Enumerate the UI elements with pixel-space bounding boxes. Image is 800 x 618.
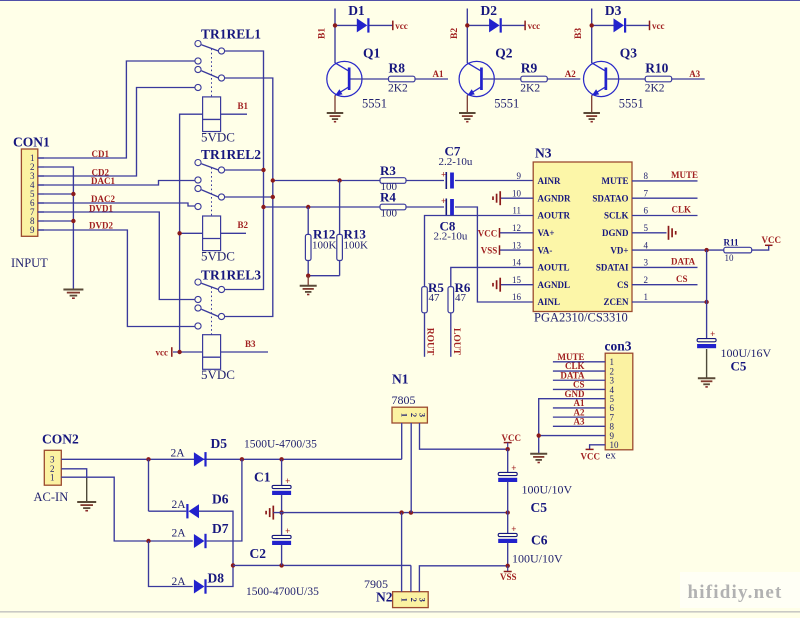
wire con3 MUTE <box>553 361 605 363</box>
junction bus A relay2 <box>261 168 265 172</box>
wire DVD2 <box>38 230 195 327</box>
svg-text:100U/10V: 100U/10V <box>512 551 563 565</box>
svg-text:INPUT: INPUT <box>11 256 48 270</box>
svg-text:VSS: VSS <box>500 572 517 582</box>
junction con3 ground <box>537 433 541 437</box>
relay TR1REL1 coil <box>203 97 221 132</box>
wire D6 leg <box>148 459 150 511</box>
svg-text:2A: 2A <box>172 576 187 588</box>
svg-text:C5: C5 <box>531 500 548 515</box>
transistor Q2 <box>459 61 494 96</box>
svg-text:DVD2: DVD2 <box>89 221 113 231</box>
svg-text:D8: D8 <box>208 571 225 586</box>
power port VSS supply <box>507 566 509 572</box>
wire CD1 <box>38 61 195 158</box>
power port vcc relays <box>171 347 173 357</box>
wire TR1REL2 coil to B2 <box>221 232 246 234</box>
svg-text:8: 8 <box>644 171 649 181</box>
wire pin 7 SDATAO <box>632 197 698 199</box>
transistor Q3 <box>584 61 619 96</box>
power port VCC right <box>765 244 773 246</box>
relay TR1REL2 linkage dotted line <box>211 168 213 216</box>
svg-text:D5: D5 <box>211 436 228 451</box>
relay TR1REL3 pole2 arm <box>201 309 218 316</box>
svg-text:47: 47 <box>455 292 467 304</box>
wire C5 to ground <box>706 349 708 378</box>
wire TR1REL1 coil to B1 <box>221 113 247 115</box>
capacitor C5 100U/10V <box>507 449 509 473</box>
resistor R6 <box>448 287 454 313</box>
relay TR1REL3 contact 3 <box>195 296 201 302</box>
svg-text:VCC: VCC <box>502 433 522 443</box>
svg-text:D2: D2 <box>481 3 498 18</box>
wire DAC1 <box>38 181 195 186</box>
svg-text:DGND: DGND <box>602 228 629 238</box>
wire CON2 pin2 to ground <box>61 469 86 478</box>
capacitor C8 <box>445 199 447 216</box>
svg-text:2K2: 2K2 <box>520 83 540 95</box>
svg-text:PGA2310/CS3310: PGA2310/CS3310 <box>534 311 628 325</box>
diode D3 <box>592 24 615 26</box>
svg-text:1: 1 <box>400 413 410 417</box>
svg-text:AOUTL: AOUTL <box>538 263 570 273</box>
power port vcc D1 <box>392 21 394 31</box>
svg-text:vcc: vcc <box>156 348 169 358</box>
svg-text:MUTE: MUTE <box>671 170 698 180</box>
svg-text:R8: R8 <box>389 60 406 75</box>
ground Q2 <box>459 112 476 114</box>
wire C8 to pin 16 AINL <box>455 207 533 302</box>
wire N1 pin3 output vcc <box>420 423 508 449</box>
capacitor C2 <box>281 513 283 536</box>
wire pin 14 AOUTL to R6 <box>451 267 533 286</box>
relay TR1REL1 contact 4 <box>195 66 201 72</box>
svg-text:+: + <box>441 196 446 206</box>
svg-text:hifidiy.net: hifidiy.net <box>688 582 783 603</box>
svg-text:2A: 2A <box>171 447 186 459</box>
wire bus A pole1 commons <box>225 51 264 290</box>
resistor R11 <box>724 247 752 253</box>
svg-text:4: 4 <box>644 240 649 250</box>
svg-text:GND: GND <box>565 389 586 399</box>
bottom border line <box>0 611 800 613</box>
wire R4 to C8 <box>406 206 444 208</box>
diode D6 <box>189 504 200 518</box>
wire con3 A3 <box>553 425 605 427</box>
wire collector Q3 <box>591 9 593 64</box>
relay TR1REL3 contact 2 <box>218 286 224 292</box>
relay TR1REL2 contact 6 <box>195 203 201 209</box>
wire N2 pin1 ground <box>401 513 403 592</box>
wire con3 pin 9 to ground <box>539 435 606 437</box>
svg-text:TR1REL3: TR1REL3 <box>201 268 261 283</box>
wire CON2 pin3 to D5 rail <box>61 458 401 460</box>
ground R12 R13 <box>300 285 317 287</box>
svg-text:C6: C6 <box>531 533 548 548</box>
svg-text:CON2: CON2 <box>42 431 79 446</box>
wire base Q1 to R8 <box>351 78 389 80</box>
wire C7 to pin 9 <box>455 180 533 182</box>
svg-text:VCC: VCC <box>762 235 782 245</box>
svg-text:CON1: CON1 <box>13 135 50 150</box>
capacitor C7 <box>445 172 447 189</box>
junction D1 anode <box>333 23 337 27</box>
wire pin 1 ZCEN <box>632 301 707 303</box>
svg-text:+: + <box>710 329 715 339</box>
junction D5 D6 leg <box>146 457 150 461</box>
junction R13 top <box>337 178 341 182</box>
svg-text:5VDC: 5VDC <box>201 249 235 264</box>
relay TR1REL3 contact 5 <box>218 313 224 319</box>
power port VCC pin 12 <box>499 228 501 238</box>
svg-text:D7: D7 <box>212 521 229 536</box>
transistor Q1 <box>327 61 362 96</box>
svg-text:DATA: DATA <box>671 257 696 267</box>
relay TR1REL1 pole1 arm <box>201 45 218 51</box>
svg-text:47: 47 <box>429 292 441 304</box>
svg-text:2: 2 <box>644 275 649 285</box>
resistor R10 <box>645 76 672 82</box>
wire collector Q2 <box>466 9 468 64</box>
junction bus B relay2 <box>271 195 275 199</box>
wire emitter Q1 <box>334 95 336 112</box>
svg-text:100: 100 <box>381 208 398 220</box>
svg-text:100K: 100K <box>312 240 337 252</box>
svg-text:1: 1 <box>644 292 649 302</box>
svg-text:100K: 100K <box>344 240 369 252</box>
svg-text:1500-4700U/35: 1500-4700U/35 <box>246 586 319 598</box>
svg-text:VCC: VCC <box>478 228 498 238</box>
svg-text:LOUT: LOUT <box>451 328 461 356</box>
svg-text:3: 3 <box>418 413 428 417</box>
wire pin 3 SDATAI <box>632 266 698 268</box>
svg-text:7905: 7905 <box>364 577 388 591</box>
ground CON2 <box>77 501 96 503</box>
wire R3 to C7 <box>406 180 444 182</box>
wire con3 DATA <box>553 379 605 381</box>
svg-text:16: 16 <box>512 292 522 302</box>
svg-text:+: + <box>285 526 290 536</box>
svg-text:SDATAI: SDATAI <box>596 263 629 273</box>
relay TR1REL2 contact 2 <box>218 167 224 173</box>
svg-text:2: 2 <box>409 598 419 602</box>
wire N2 pin2 input <box>410 565 412 591</box>
wire R6 to LOUT <box>450 313 452 357</box>
relay TR1REL1 contact 1 <box>195 41 201 47</box>
svg-text:12: 12 <box>512 223 521 233</box>
relay TR1REL1 linkage dotted line <box>211 49 213 97</box>
svg-text:DAC1: DAC1 <box>91 176 115 186</box>
junction D7 output on rail <box>240 457 244 461</box>
wire emitter Q3 <box>591 95 593 112</box>
wire con3 GND pin 5 <box>539 399 606 454</box>
op-amp / IC N3 PGA2310 <box>533 162 632 312</box>
wire vcc bus for relay coils <box>173 114 203 352</box>
svg-text:D6: D6 <box>212 492 229 507</box>
svg-text:vcc: vcc <box>652 21 665 31</box>
relay TR1REL1 contact 3 <box>195 58 201 64</box>
svg-text:9: 9 <box>517 171 522 181</box>
wire DVD1 <box>38 212 195 300</box>
relay TR1REL1 contact 2 <box>218 48 224 54</box>
junction D2 anode <box>465 23 469 27</box>
svg-text:CS: CS <box>676 274 688 284</box>
svg-text:2.2-10u: 2.2-10u <box>439 156 473 168</box>
svg-text:VA+: VA+ <box>538 228 555 238</box>
wire VD+ ZCEN bus down to C5 <box>706 250 708 339</box>
wire emitter Q2 <box>466 95 468 112</box>
wire L channel line to R4 <box>264 206 381 208</box>
wire con3 CS <box>553 388 605 390</box>
svg-text:5: 5 <box>644 223 649 233</box>
junction D6 D8 bottom rail <box>231 563 235 567</box>
svg-text:C5: C5 <box>731 359 747 374</box>
wire pin 5 DGND <box>632 232 667 234</box>
svg-text:3: 3 <box>50 455 55 465</box>
svg-text:VA-: VA- <box>538 245 553 255</box>
ground CON1 input common <box>63 289 83 291</box>
diode D2 <box>467 24 490 26</box>
wire con3 pin 10 VCC <box>590 445 606 450</box>
wire pin 6 SCLK <box>632 215 698 217</box>
junction C6 VSS <box>506 564 510 568</box>
resistor R8 <box>389 76 416 82</box>
analog ground pin 15 AGNDL <box>499 278 501 292</box>
svg-text:CD1: CD1 <box>92 149 110 159</box>
relay TR1REL3 contact 4 <box>195 305 201 311</box>
relay TR1REL2 contact 4 <box>195 185 201 191</box>
wire D7 to top rail <box>207 459 242 541</box>
wire CON2 pin1 to D7 row <box>61 477 192 541</box>
relay TR1REL3 coil <box>203 335 221 370</box>
svg-text:N1: N1 <box>392 372 409 387</box>
capacitor C1 <box>281 459 283 486</box>
relay TR1REL1 pole2 arm <box>201 71 218 78</box>
svg-text:B2: B2 <box>238 220 249 230</box>
wire R10 to A3 <box>672 78 705 80</box>
junction ZCEN bus <box>704 300 708 304</box>
junction C5 C6 ground <box>506 510 510 514</box>
svg-text:R3: R3 <box>380 163 396 178</box>
wire con3 A1 <box>553 407 605 409</box>
wire con3 CLK <box>553 370 605 372</box>
connector CON1 <box>21 149 37 236</box>
svg-text:R9: R9 <box>521 60 538 75</box>
svg-text:B3: B3 <box>245 339 256 349</box>
relay TR1REL3 contact 1 <box>195 279 201 285</box>
svg-text:D3: D3 <box>605 3 622 18</box>
connector CON2 <box>44 450 61 485</box>
power port vcc D3 <box>649 21 651 31</box>
svg-text:15: 15 <box>512 275 522 285</box>
svg-text:N3: N3 <box>535 146 552 161</box>
wire ground bus <box>273 512 507 514</box>
wire CON1 ground bus pins 2,5,8 <box>44 167 73 289</box>
wire collector Q1 <box>334 9 336 64</box>
svg-text:2A: 2A <box>172 499 187 511</box>
wire DAC2 <box>38 203 195 206</box>
ground con3 <box>530 453 547 455</box>
svg-text:5VDC: 5VDC <box>201 129 235 144</box>
svg-text:vcc: vcc <box>395 21 408 31</box>
svg-text:AINL: AINL <box>538 297 561 307</box>
wire N2 pin3 output vss <box>419 566 507 592</box>
svg-text:+: + <box>285 476 290 486</box>
wire D8 leg <box>149 541 193 587</box>
svg-text:DVD1: DVD1 <box>89 204 113 214</box>
wire R channel line to R3 <box>273 180 380 182</box>
junction D3 anode <box>590 23 594 27</box>
svg-text:A1: A1 <box>433 69 444 79</box>
resistor R9 <box>521 76 548 82</box>
svg-text:+: + <box>511 463 516 473</box>
diode D5 <box>194 452 205 466</box>
svg-text:Q1: Q1 <box>363 45 381 60</box>
svg-text:B3: B3 <box>574 28 584 39</box>
diode D7 <box>194 534 205 548</box>
svg-text:ex: ex <box>606 450 617 462</box>
svg-text:5VDC: 5VDC <box>201 367 235 382</box>
wire base Q2 to R9 <box>483 78 521 80</box>
junction R12 top <box>306 205 310 209</box>
wire pin 2 CS <box>632 284 698 286</box>
wire R8 to A1 <box>415 78 448 80</box>
power port VCC con3 <box>586 448 594 450</box>
wire R5 to ROUT <box>424 313 426 357</box>
wire bus B pole2 commons <box>225 78 273 317</box>
watermark background <box>680 572 800 608</box>
svg-text:AINR: AINR <box>538 176 562 186</box>
junction VCC rail <box>506 447 510 451</box>
junction bus A L line <box>261 205 265 209</box>
junction C1 ground bus <box>279 510 283 514</box>
svg-text:5551: 5551 <box>619 97 644 111</box>
wire CD2 <box>38 88 195 177</box>
svg-text:CS: CS <box>617 280 629 290</box>
capacitor C5 100U/16V <box>697 339 716 342</box>
wire con3 A2 <box>553 416 605 418</box>
wire R11 to VCC <box>752 245 769 250</box>
svg-text:TR1REL2: TR1REL2 <box>201 147 261 162</box>
svg-text:VSS: VSS <box>481 245 498 255</box>
relay TR1REL2 contact 5 <box>218 194 224 200</box>
junction VD+ bus <box>704 248 708 252</box>
junction N2 pin1 ground <box>399 510 403 514</box>
svg-text:5551: 5551 <box>494 97 519 111</box>
svg-text:B1: B1 <box>238 101 249 111</box>
svg-text:+: + <box>441 170 446 180</box>
wire base Q3 to R10 <box>607 78 645 80</box>
svg-text:14: 14 <box>512 258 522 268</box>
svg-text:2K2: 2K2 <box>388 83 408 95</box>
svg-text:ROUT: ROUT <box>425 328 435 356</box>
svg-text:3: 3 <box>417 598 427 602</box>
svg-text:A2: A2 <box>565 69 576 79</box>
svg-text:CLK: CLK <box>672 205 692 215</box>
capacitor C6 <box>507 513 509 534</box>
svg-text:1: 1 <box>50 473 55 483</box>
svg-text:Q2: Q2 <box>495 45 513 60</box>
svg-text:C2: C2 <box>250 546 267 561</box>
relay TR1REL1 contact 6 <box>195 84 201 90</box>
junction CON1 pin5 ground <box>71 192 75 196</box>
svg-text:AGNDL: AGNDL <box>538 280 571 290</box>
junction R12 bottom <box>306 274 310 278</box>
svg-text:A3: A3 <box>574 417 585 427</box>
resistor R3 <box>380 178 406 184</box>
svg-text:B1: B1 <box>318 28 328 39</box>
relay TR1REL2 contact 3 <box>195 177 201 183</box>
diode D8 <box>194 580 205 594</box>
wire pin 8 MUTE <box>632 180 698 182</box>
relay TR1REL2 pole2 arm <box>201 190 218 197</box>
junction C1 top <box>279 457 283 461</box>
svg-text:AGNDR: AGNDR <box>538 193 571 203</box>
relay TR1REL3 linkage dotted line <box>211 287 213 335</box>
svg-text:A3: A3 <box>689 69 700 79</box>
svg-text:5551: 5551 <box>362 97 387 111</box>
svg-text:100U/10V: 100U/10V <box>522 482 573 496</box>
svg-text:2A: 2A <box>172 528 187 540</box>
svg-text:AC-IN: AC-IN <box>34 490 69 504</box>
wire N1 pin1 input <box>401 423 403 459</box>
svg-text:VD+: VD+ <box>610 245 628 255</box>
digital ground DGND <box>668 226 670 240</box>
relay TR1REL1 contact 5 <box>218 75 224 81</box>
svg-text:R11: R11 <box>724 237 740 247</box>
relay TR1REL3 contact 6 <box>195 323 201 329</box>
wire bottom rail <box>233 564 411 566</box>
svg-text:SDATAO: SDATAO <box>592 193 628 203</box>
junction D7 D8 leg <box>146 539 150 543</box>
svg-text:B2: B2 <box>450 28 460 39</box>
svg-text:9: 9 <box>30 225 35 235</box>
power port VCC supply <box>504 442 512 444</box>
svg-text:MUTE: MUTE <box>602 176 629 186</box>
junction C2 bottom <box>279 563 283 567</box>
svg-text:2K2: 2K2 <box>645 83 665 95</box>
junction N1 pin2 ground <box>409 510 413 514</box>
svg-text:con3: con3 <box>605 339 632 354</box>
wire pin 4 VD+ to R11 <box>632 249 724 251</box>
svg-text:10: 10 <box>610 440 620 450</box>
svg-text:7: 7 <box>644 188 649 198</box>
junction bus B R line <box>271 178 275 182</box>
svg-text:1: 1 <box>400 598 410 602</box>
relay TR1REL2 contact 1 <box>195 160 201 166</box>
relay TR1REL2 pole1 arm <box>201 164 218 170</box>
top border line <box>0 0 800 2</box>
wire TR1REL3 coil to B3 <box>221 351 268 353</box>
svg-text:AOUTR: AOUTR <box>538 211 571 221</box>
svg-text:N2: N2 <box>376 590 393 605</box>
ground Q3 <box>583 112 600 114</box>
svg-text:VCC: VCC <box>581 452 601 462</box>
wire N1 pin2 ground <box>410 423 412 513</box>
diode D1 <box>335 24 358 26</box>
svg-text:10: 10 <box>512 188 522 198</box>
svg-text:13: 13 <box>512 240 522 250</box>
wire pin 11 AOUTR to R5 <box>425 216 534 287</box>
resistor R13 <box>339 181 341 235</box>
svg-text:Q3: Q3 <box>620 45 638 60</box>
ground Q1 <box>327 112 344 114</box>
ground C5 <box>698 377 716 379</box>
resistor R4 <box>380 204 406 210</box>
svg-text:ZCEN: ZCEN <box>603 297 629 307</box>
regulator N2 7905 <box>393 592 429 608</box>
svg-text:SCLK: SCLK <box>604 211 629 221</box>
